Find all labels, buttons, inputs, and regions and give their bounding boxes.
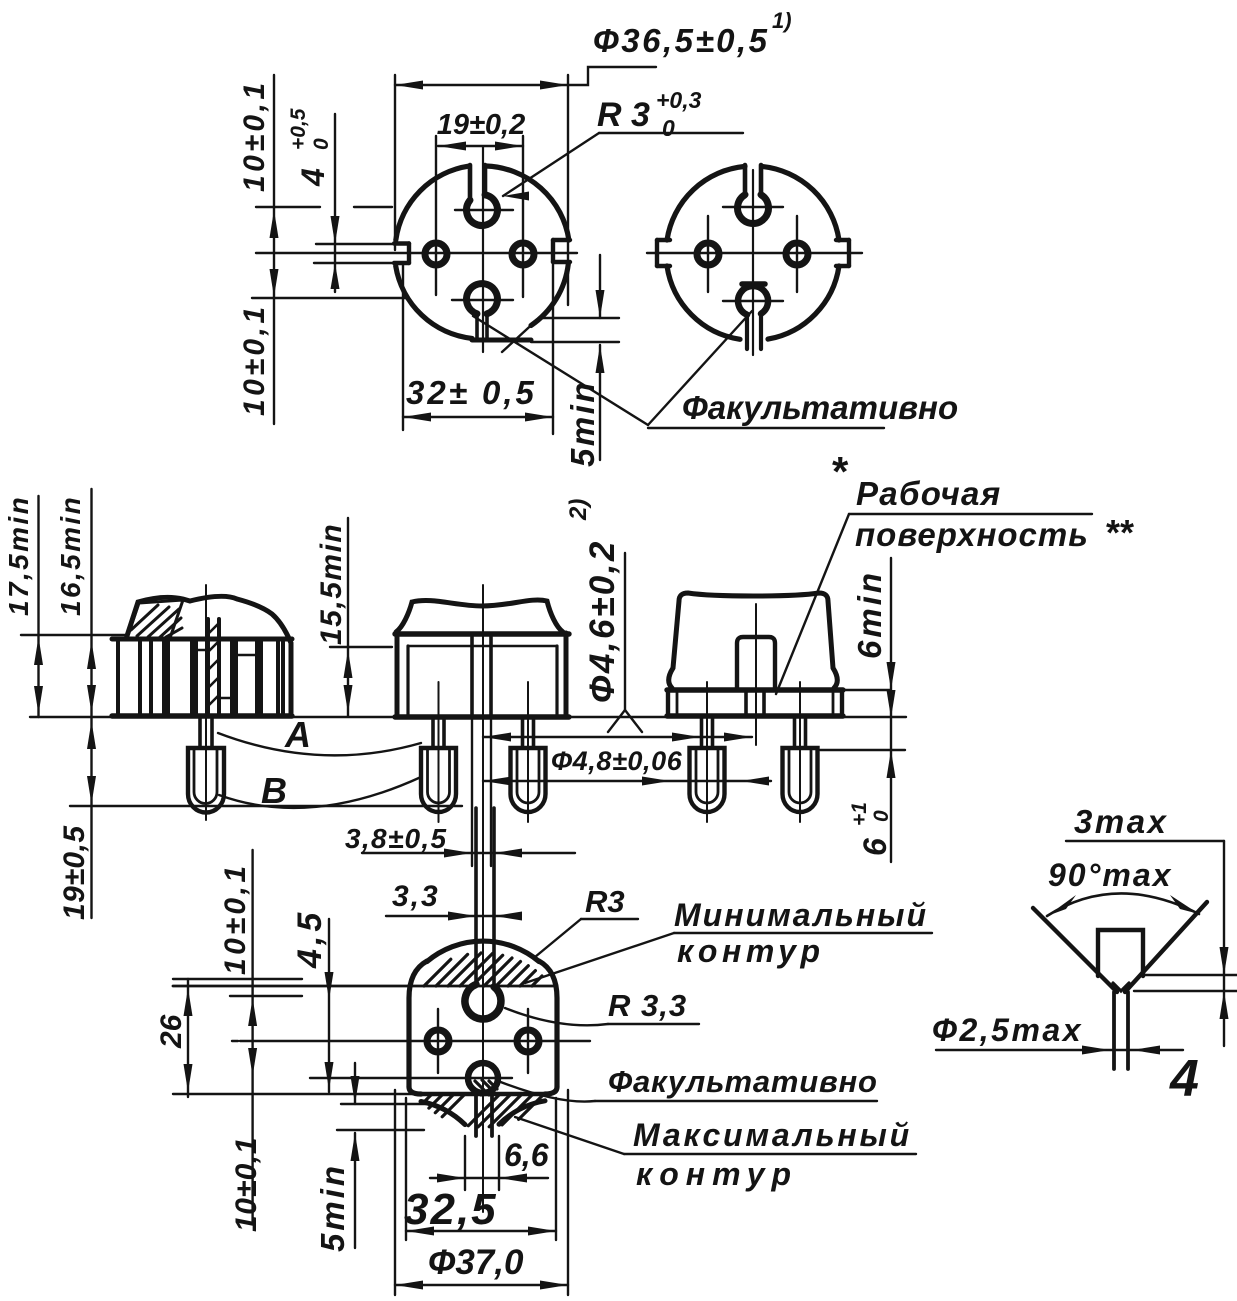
detail 4: cone left line [1033,908,1117,992]
svg-text:90°max: 90°max [1048,857,1172,893]
bottom view: contour left flat [409,961,427,1087]
svg-text:Максимальный: Максимальный [633,1117,912,1153]
svg-text:6min: 6min [851,570,888,659]
svg-text:A: A [284,714,311,755]
dimension 3,3: line and arrows [386,915,517,917]
top view bottom-side: outer contour arc bottom-right [531,264,568,326]
label R3 bottom: leader and text [535,919,581,957]
svg-text:26: 26 [155,1014,188,1049]
dimension 6+1/0: arrows [887,690,896,718]
top view cap-side: right pilot hole [786,243,808,265]
top view: bottom hole horizontal centerline [452,299,513,301]
dimension 3,8±0,5: line and arrows [362,852,575,854]
label R3+0,3: leader with arrow [503,133,599,196]
leader to Факультативно from bottom hole of top view [473,316,648,425]
svg-text:0: 0 [662,115,675,141]
extension line y263 (notch bottom) [314,262,403,264]
svg-text:+0,5: +0,5 [287,108,310,150]
svg-text:16,5min: 16,5min [55,495,86,616]
bottom view: contour top arc [427,941,539,961]
dimension Ф36,5±0,5: leader jog [568,67,656,85]
svg-text:15,5min: 15,5min [315,523,348,645]
top view: bottom flat chord [472,338,531,343]
svg-text:19±0,5: 19±0,5 [58,825,91,920]
svg-text:1): 1) [772,8,792,33]
front view: right pin [521,717,525,748]
rear view: plate sides [666,690,670,716]
svg-text:+1: +1 [848,802,871,826]
svg-text:Ф4,6±0,2: Ф4,6±0,2 [583,539,622,703]
bottom view: min contour chord [173,985,556,988]
detail 4: cone right line [1125,902,1207,992]
bottom view: min contour hatch [424,959,451,986]
top view: vertical centerline [482,147,484,352]
top view cap-side: vertical centerline [752,170,754,355]
svg-text:3max: 3max [1074,803,1168,840]
top view: top hole horizontal centerline [455,209,513,211]
dimension 32,5: extension lines [405,1098,407,1240]
bottom view: max contour hatch right [468,1094,500,1126]
top view cap-side: horizontal centerline [647,252,862,254]
side section view: shell ribs [116,641,120,715]
top view cap-side: bottom slot [745,316,749,349]
bottom view: max contour bulge left [421,1102,465,1125]
bottom view: bottom contact hole [468,1063,498,1093]
top view bottom-side: outer contour arc top-right [486,166,569,240]
top view cap-side: left pilot hole [697,243,719,265]
bottom view: bottom chord [421,1092,545,1096]
svg-text:32,5: 32,5 [404,1185,498,1234]
top view cap-side: top contact hole [738,195,769,224]
svg-text:**: ** [1106,512,1134,553]
label B: leader curve [219,777,421,808]
extension line y207 left [256,206,320,208]
svg-text:3,8±0,5: 3,8±0,5 [345,823,447,854]
svg-text:*: * [832,448,849,495]
side section view: rib ticks [196,649,208,652]
detail 4: pin cross-section [1098,930,1143,976]
top view: right pilot hole [512,243,534,265]
side section view: pin tip inner [194,748,217,804]
top view: horizontal centerline [256,252,577,254]
dimension 15,5min: extension line [330,646,392,648]
top view cap-side: bottom hole crosshair [723,300,783,302]
top view: key slot at top [468,165,473,199]
side section view: shell top edge [112,637,292,642]
top view: bottom contact hole [467,284,498,314]
side section view: pin shank [198,716,202,748]
label минимальный контур: leader [525,933,674,983]
dimension 5min top view: extension lines [543,317,619,319]
top view cap-side: left tab [657,238,670,242]
dimension 10±0,1 bottom upper: line and arrows [251,850,253,1224]
bottom view: bottom slot [474,1092,478,1136]
svg-text:10±0,1: 10±0,1 [219,862,252,975]
top view: bottom slot [475,314,479,339]
extension line y244 (notch top) [316,243,404,245]
svg-text:3,3: 3,3 [392,880,440,913]
dimension Ф2,5max: line and arrows [936,1049,1183,1051]
top view cap-side: left hole centerline [707,216,709,292]
bottom view: pilot hole centerlines [437,1009,439,1073]
dimension 17,5min: line and arrows [37,496,39,717]
rear view: pin-top extension line [820,749,905,751]
bottom view: horizontal centerline [240,1040,590,1042]
side section view: hatched central column [206,619,210,716]
side section view: pin tip capsule [188,748,224,813]
top view bottom-side: outer contour arc top-left [396,166,469,240]
extension line centerline left [232,1040,238,1042]
svg-text:6,6: 6,6 [504,1137,549,1173]
svg-text:17,5min: 17,5min [3,495,34,616]
dimension 90°max: arc with arrows [1047,893,1199,916]
front view: inner walls [406,646,409,716]
top view: left side notch [394,241,409,245]
svg-text:19±0,2: 19±0,2 [437,109,526,141]
bottom view: top contact hole [465,984,501,1019]
bottom view: right pilot hole [517,1030,539,1052]
dimension Ф4,6±0,2: fork leader [608,553,625,732]
top view cap-side: outer contour arc bottom-left [667,266,740,339]
svg-text:контур: контур [677,933,825,969]
svg-text:32± 0,5: 32± 0,5 [406,374,537,411]
bottom view: bottom hole crosshair [310,1077,512,1079]
dimension 16,5min and 19±0,5: shared line [90,489,92,918]
label Факультативно top: leaders [648,311,752,425]
top view: left pilot hole [425,243,447,265]
dimension 5min bottom: extension lines [341,1103,431,1105]
top view cap-side: outer contour arc top-right [762,166,839,240]
dimension Ф4,8±0,06: line and arrows [483,780,771,782]
svg-text:10±0,1: 10±0,1 [238,303,271,416]
svg-text:Рабочая: Рабочая [856,475,1001,512]
svg-text:R 3: R 3 [597,96,650,134]
label максимальный контур: leader [515,1117,624,1154]
top view: top contact hole [467,195,498,226]
side section view: pin centerline [205,585,207,820]
svg-text:+0,3: +0,3 [656,87,702,113]
top view cap-side: top hole crosshair [723,206,783,208]
dimension Ф4,6±0,2: line and arrows [483,736,752,738]
bottom view: contour top-right corner [539,961,557,1087]
svg-text:10±0,1: 10±0,1 [230,1137,263,1232]
dimension 4,5: line and arrows [328,919,330,1092]
svg-text:0: 0 [310,138,333,150]
bottom view: bottom-left corner [409,1087,421,1094]
extension line top-hole bottom view [230,995,302,997]
svg-text:10±0,1: 10±0,1 [238,79,271,192]
top view cap-side: bottom contact hole [738,286,768,315]
top view cap-side: right tab [836,238,849,242]
svg-text:2): 2) [565,499,592,521]
label A: leader curve [218,733,421,755]
side section view: hatched section cut [127,600,183,638]
svg-text:0: 0 [870,810,893,822]
front view: shell top edge [395,631,569,636]
rear view: right pin [793,717,797,748]
svg-text:Ф36,5±0,5: Ф36,5±0,5 [593,22,769,59]
bottom view: max contour hatch left [423,1094,432,1103]
dimension Ф36,5±0,5: line and arrows [395,84,568,86]
front view: bottom edge [395,714,569,719]
front view: central slot extension lines [471,717,473,866]
dimension 3max: line and arrows [1223,841,1225,1046]
svg-text:5min: 5min [314,1163,351,1252]
front view: right side [564,633,569,717]
side section view: dome outline [126,596,291,716]
top view: right hole vertical centerline / 19 extension [522,136,524,297]
top view cap-side: right hole centerline [796,216,798,292]
pin-bottom extension line [70,805,462,807]
dimension 26: line and arrows [187,979,189,1097]
top view cap-side: outer contour arc top-left [667,166,745,240]
label Факультативно bottom: leader [498,1081,595,1102]
label рабочая поверхность: leader [776,514,849,694]
rear view: dome outline [669,593,838,688]
front view: central slot [470,637,474,716]
svg-text:Ф37,0: Ф37,0 [428,1243,524,1282]
dimension 6,6: line and arrows [430,1177,548,1179]
svg-text:Ф2,5max: Ф2,5max [932,1012,1083,1048]
central vertical centerline [482,585,484,1212]
bottom view: max contour bulge right [499,1101,545,1125]
svg-text:6: 6 [857,838,893,856]
svg-text:4: 4 [1169,1050,1199,1108]
detail 4: funnel throat [1113,983,1129,991]
dimension 32,5: line and arrows [406,1230,556,1232]
front view: left pin [431,717,435,748]
bottom view: slot lines from above [474,808,478,986]
rear view: left pin [700,717,704,748]
baseline through side views [30,716,906,718]
dimension 32±0,5: line and arrows [403,416,553,418]
bottom view: bottom-right corner [545,1087,557,1094]
label R 3,3: leader and text [505,1008,608,1025]
crossing mark at bottom flat [502,307,551,352]
svg-text:контур: контур [636,1156,798,1192]
dimension 26/10 top extension [173,978,302,980]
svg-text:поверхность: поверхность [855,516,1089,553]
bottom view: bottom hole hatch [470,1084,481,1095]
rear view: shell top edge [667,687,843,692]
rear view: bottom edge [667,713,843,718]
dimension 15,5min: line and arrows [347,518,349,716]
svg-text:Факультативно: Факультативно [682,389,958,426]
dimension 6min: line and arrow [890,558,892,862]
front view: dome outline [396,600,563,632]
bottom view: left pilot hole [427,1030,449,1052]
dimension Ф37,0: extension lines [394,1090,396,1295]
dimension 5min bottom: line and arrows [354,1063,356,1104]
rear view: central stud [737,637,775,690]
svg-text:R 3,3: R 3,3 [608,988,687,1023]
rear view: central slot [744,690,748,716]
dimension 3,3: extension use of slot lines [475,872,477,912]
detail 4: hole walls [1112,992,1116,1069]
svg-text:4,5: 4,5 [291,909,329,969]
dimension 4+0,5/0: line and arrows [334,114,336,292]
rear view: central stud centerline [755,604,757,745]
dimension Ф37,0: line and arrows [395,1284,568,1286]
svg-text:Минимальный: Минимальный [674,897,928,933]
top view bottom-side: outer contour arc bottom-left [396,266,472,338]
dimension 6,6: extension lines [464,1136,466,1190]
dimension Ф36,5±0,5: extension lines [394,75,396,250]
side section view: bottom edge [112,713,292,718]
top view: left hole vertical centerline / 19 extension [435,136,437,295]
dimension 26 bottom extension [173,1093,420,1095]
top view cap-side: outer contour arc bottom-right [768,266,839,339]
dimension 3max: extension lines [1145,974,1237,976]
dimension 19±0,2: line and arrows [438,145,523,147]
dimension 10±0,1 upper: line and arrows [273,75,275,424]
svg-text:4: 4 [295,168,331,187]
svg-text:Ф4,8±0,06: Ф4,8±0,06 [551,746,683,776]
dimension 5min top view: line and arrows [599,255,601,318]
svg-text:R3: R3 [585,884,625,919]
top view: right side notch [553,238,570,242]
svg-text:Факультативно: Факультативно [608,1064,878,1099]
front view: left side [395,633,400,717]
top view cap-side: key slot at top [743,165,748,194]
top view cap-side: bar above bottom hole [742,281,765,287]
extension line y298 left [252,297,406,299]
dimension 32±0,5: extension lines [402,265,404,430]
